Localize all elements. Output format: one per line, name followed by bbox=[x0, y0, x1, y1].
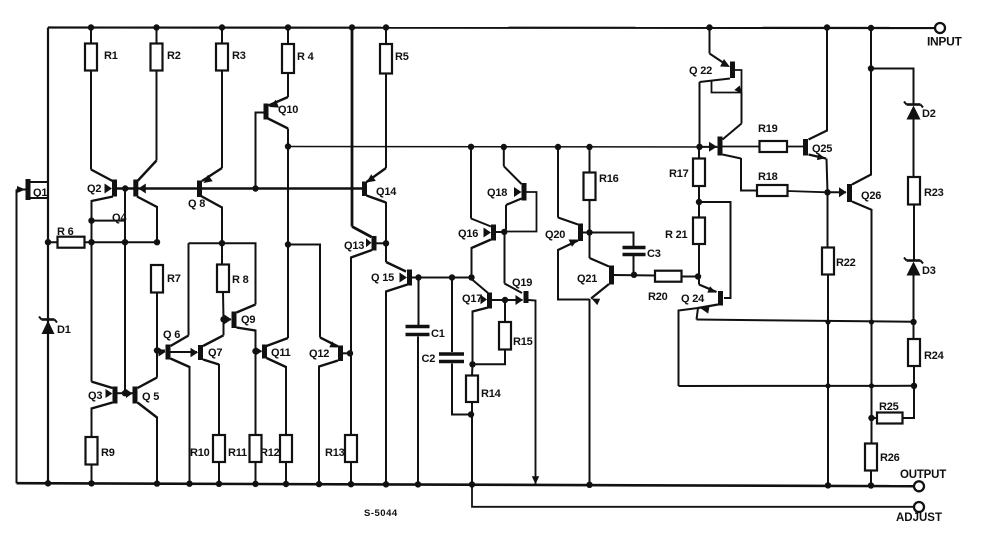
svg-text:R25: R25 bbox=[879, 401, 899, 413]
arrow Q15 emitter bbox=[400, 273, 408, 283]
wire Q23 emitter link bbox=[700, 146, 718, 148]
arrow Q24 base bbox=[707, 286, 716, 292]
label R7 bbox=[167, 273, 181, 285]
wire R24 top lead bbox=[913, 322, 915, 339]
node bottom rail junction bbox=[868, 482, 874, 488]
wire current limit line y320 bbox=[697, 320, 914, 322]
svg-text:R24: R24 bbox=[924, 350, 945, 362]
resistor R13 bbox=[345, 435, 357, 462]
wire Q2 emitter to R6 line bbox=[91, 221, 93, 243]
resistor R21 bbox=[693, 218, 705, 245]
transistor Q13 bbox=[372, 236, 377, 251]
wire Q2 emitter elbow bbox=[92, 221, 126, 243]
wire Q26 base bbox=[828, 191, 847, 193]
label Q11 bbox=[271, 347, 291, 359]
wire R16 bottom lead bbox=[589, 200, 591, 233]
label R15 bbox=[513, 336, 533, 348]
wire Q22 emitter feed bbox=[710, 28, 727, 65]
wire Q18 emitter bbox=[506, 199, 522, 230]
wire R22 bottom lead bbox=[827, 275, 829, 486]
label R5 bbox=[395, 51, 409, 63]
node Q2 emitter junction bbox=[88, 217, 94, 223]
wire Q13 right link bbox=[377, 242, 387, 244]
label Q8 bbox=[188, 198, 205, 210]
wire C2 bottom lead bbox=[452, 364, 471, 415]
transistor Q9 bbox=[232, 312, 237, 329]
arrow Q16 emitter bbox=[484, 228, 492, 238]
wire Q25 collector bbox=[809, 28, 828, 140]
label R2 bbox=[167, 50, 181, 62]
wire C2 top lead bbox=[451, 278, 453, 353]
node R6 left bbox=[45, 239, 51, 245]
wire Q6 Q7 link bbox=[171, 351, 198, 353]
wire bases drop bbox=[124, 242, 126, 393]
wire R14 top lead bbox=[471, 364, 474, 375]
wire R12 bottom lead bbox=[285, 462, 287, 484]
label S-5044 bbox=[364, 508, 398, 519]
svg-text:Q14: Q14 bbox=[376, 186, 397, 198]
wire Q11 emitter bbox=[267, 358, 287, 435]
wire R22 top lead bbox=[827, 192, 829, 247]
resistor R22 bbox=[822, 248, 834, 275]
node Q26 base node bbox=[824, 189, 830, 195]
resistor R15 bbox=[499, 322, 511, 350]
node Q26em y320 junction bbox=[869, 319, 874, 324]
resistor R18 bbox=[757, 185, 788, 196]
arrow Q19 emitter bbox=[516, 295, 524, 305]
terminal INPUT bbox=[935, 23, 945, 33]
wire Q12 emitter bbox=[319, 361, 338, 484]
node R14 top junction bbox=[469, 361, 475, 367]
label R4 bbox=[297, 51, 315, 63]
node bottom rail junction bbox=[415, 481, 421, 487]
wire R19 right lead bbox=[787, 146, 803, 148]
label Q9 bbox=[241, 314, 255, 326]
arrow Q2 emitter bbox=[105, 184, 113, 194]
svg-text:Q 6: Q 6 bbox=[163, 329, 180, 341]
wire Q14 base down bbox=[367, 196, 387, 244]
label R10 bbox=[190, 447, 210, 459]
label R14 bbox=[481, 388, 502, 400]
label R13 bbox=[325, 447, 345, 459]
wire Q8 emitter bbox=[201, 196, 222, 243]
label OUTPUT bbox=[900, 469, 946, 481]
node top rail junction bbox=[285, 24, 291, 30]
label Q24 bbox=[681, 293, 705, 305]
node top rail junction bbox=[383, 24, 389, 30]
transistor Q21 bbox=[609, 266, 614, 285]
label Q6 bbox=[163, 329, 180, 341]
wire Q24 emitter bbox=[698, 305, 718, 309]
wire R24 bottom lead bbox=[913, 366, 915, 386]
wire Q18 collector bbox=[504, 147, 522, 184]
label Q12 bbox=[309, 348, 329, 360]
wire C1 bottom lead bbox=[417, 337, 419, 485]
arrow Q22 collector bbox=[734, 86, 742, 94]
svg-text:Q21: Q21 bbox=[577, 273, 597, 285]
label Q21 bbox=[577, 273, 597, 285]
wire R14 bottom lead bbox=[471, 402, 473, 485]
svg-text:Q3: Q3 bbox=[88, 390, 102, 402]
svg-text:Q9: Q9 bbox=[241, 314, 255, 326]
node top rail junction bbox=[88, 24, 94, 30]
svg-text:R26: R26 bbox=[880, 452, 900, 464]
wire Q12 collector link bbox=[343, 352, 351, 354]
arrow Q21 emitter bbox=[592, 299, 601, 306]
wire R21 bottom lead bbox=[699, 244, 717, 292]
label R18 bbox=[758, 171, 778, 183]
wire Q6 base bbox=[157, 350, 165, 352]
wire Q26 collector bbox=[852, 28, 871, 185]
wire R11 bottom lead bbox=[255, 462, 257, 484]
transistor Q18 bbox=[522, 183, 527, 201]
svg-text:Q19: Q19 bbox=[512, 277, 532, 289]
wire Q25 emitter drop bbox=[827, 159, 828, 193]
resistor R23 bbox=[908, 177, 920, 205]
wire R20 right lead bbox=[682, 276, 700, 278]
svg-text:INPUT: INPUT bbox=[927, 35, 962, 49]
node top rail junction bbox=[349, 24, 355, 30]
svg-text:R13: R13 bbox=[325, 447, 345, 459]
svg-text:R14: R14 bbox=[481, 388, 502, 400]
resistor R12 bbox=[280, 435, 292, 462]
node D3 R24 junction bbox=[910, 319, 916, 325]
resistor R2 bbox=[151, 44, 163, 71]
wire R15 top lead bbox=[504, 300, 506, 322]
svg-text:D2: D2 bbox=[922, 108, 936, 120]
transistor Q17 bbox=[487, 293, 492, 309]
wire R1 bottom to Q2 bbox=[91, 71, 114, 182]
arrow Q14 emitter bbox=[367, 174, 376, 182]
wire R1 top bbox=[90, 28, 92, 44]
wire R13 bottom lead bbox=[350, 462, 352, 484]
label R9 bbox=[101, 447, 115, 459]
wire R17 Q24 bracket bbox=[699, 202, 731, 298]
node R25 R26 junction bbox=[868, 415, 874, 421]
label R22 bbox=[836, 257, 856, 269]
node Q2 Q4 bases bbox=[122, 185, 128, 191]
arrow Q10 emitter bbox=[270, 100, 280, 108]
wire Q10 collector bbox=[268, 119, 288, 147]
svg-text:R23: R23 bbox=[924, 187, 944, 199]
node y147 R17 junction bbox=[696, 144, 702, 150]
transistor Q24 bbox=[718, 291, 723, 306]
node bottom rail junction bbox=[348, 481, 354, 487]
wire Q15 emitter bbox=[386, 285, 408, 485]
wire Q9 emitter bbox=[237, 328, 256, 436]
label R1 bbox=[104, 50, 118, 62]
label Q20 bbox=[545, 229, 565, 241]
svg-text:R5: R5 bbox=[395, 51, 409, 63]
wire Q4 emitter down bbox=[137, 197, 157, 243]
wire R23 bottom lead bbox=[913, 205, 915, 261]
wire Q3 Q5 link bbox=[118, 392, 133, 394]
svg-text:Q 22: Q 22 bbox=[689, 65, 712, 77]
arrow Q26 base bbox=[839, 187, 847, 197]
transistor Q12 bbox=[338, 346, 343, 362]
node bottom rail junction bbox=[45, 480, 51, 486]
svg-text:Q 24: Q 24 bbox=[681, 293, 705, 305]
svg-text:Q17: Q17 bbox=[462, 293, 482, 305]
wire Q20 collector bbox=[558, 147, 578, 225]
label R3 bbox=[232, 50, 246, 62]
wire Q10 base bbox=[256, 113, 264, 189]
wire C3 bottom lead bbox=[633, 256, 635, 275]
svg-text:R12: R12 bbox=[260, 447, 280, 459]
wire Q17 collector bbox=[472, 279, 489, 293]
wire Q13 collector bbox=[351, 250, 372, 435]
wire Q1 gate lead bbox=[17, 190, 26, 484]
svg-text:R19: R19 bbox=[758, 123, 778, 135]
diode D3 bbox=[904, 258, 923, 276]
transistor Q3 bbox=[113, 387, 118, 404]
transistor Q26 bbox=[847, 184, 852, 202]
node y147 R16 junction bbox=[586, 144, 592, 150]
wire Q10 collector down to Q11 bbox=[267, 147, 289, 347]
node Q10 collector junction bbox=[285, 143, 291, 149]
wire bottom rail to OUTPUT bbox=[17, 483, 914, 486]
svg-text:Q12: Q12 bbox=[309, 348, 329, 360]
wire Q20 base link bbox=[583, 232, 589, 234]
wire D2 bottom lead bbox=[913, 120, 915, 178]
wire Q22 collector loop bbox=[712, 70, 742, 93]
node y147 Q18 junction bbox=[501, 144, 507, 150]
label R8 bbox=[232, 274, 249, 286]
svg-text:Q20: Q20 bbox=[545, 229, 565, 241]
node C3 bottom junction bbox=[631, 272, 637, 278]
svg-text:R 8: R 8 bbox=[232, 274, 249, 286]
wire Q22 base diag bbox=[700, 79, 731, 83]
label Q26 bbox=[861, 190, 881, 202]
svg-text:D3: D3 bbox=[922, 265, 936, 277]
svg-text:R22: R22 bbox=[836, 257, 856, 269]
label ADJUST bbox=[896, 512, 942, 524]
svg-text:S-5044: S-5044 bbox=[364, 508, 398, 519]
svg-text:OUTPUT: OUTPUT bbox=[900, 469, 946, 481]
label Q10 bbox=[278, 104, 298, 116]
node R22 y386 junction bbox=[825, 383, 830, 388]
wire Q23 to R19 bbox=[723, 146, 760, 148]
arrow Q3 emitter bbox=[106, 389, 113, 398]
arrow Q24 emitter bbox=[701, 306, 710, 314]
resistor R7 bbox=[151, 265, 163, 293]
svg-text:R11: R11 bbox=[228, 447, 247, 459]
svg-text:Q10: Q10 bbox=[278, 104, 298, 116]
wire R25 left lead bbox=[871, 417, 877, 419]
arrow Q9 base bbox=[225, 315, 232, 325]
node D2 branch junction bbox=[868, 65, 874, 71]
node R15 top junction bbox=[502, 297, 508, 303]
wire Q16 emitter bbox=[472, 240, 492, 278]
arrow Q7 base bbox=[191, 348, 199, 357]
node Q15 Q16 Q17 node bbox=[468, 274, 474, 280]
label R21 bbox=[665, 229, 688, 241]
wire Q6 emitter bbox=[171, 359, 190, 484]
transistor Q16 bbox=[491, 225, 496, 241]
wire Q1 bottom lead bbox=[30, 197, 48, 199]
label Q22 bbox=[689, 65, 712, 77]
wire R17 bottom lead bbox=[698, 186, 700, 202]
node bottom rail junction bbox=[252, 481, 258, 487]
resistor R8 bbox=[217, 265, 229, 293]
node bottom rail junction bbox=[283, 481, 289, 487]
wire bracket right to Q9 bbox=[237, 243, 256, 312]
svg-text:R 4: R 4 bbox=[297, 51, 315, 63]
transistor Q22 bbox=[730, 62, 735, 79]
svg-text:R 21: R 21 bbox=[665, 229, 688, 241]
wire R4 bottom to Q10 bbox=[269, 73, 289, 106]
node bottom rail junction bbox=[586, 482, 592, 488]
wire Q17 emitter bbox=[473, 308, 489, 365]
wire R8 top bbox=[221, 243, 223, 264]
resistor R16 bbox=[584, 173, 596, 201]
node top rail junction bbox=[219, 24, 225, 30]
svg-text:Q 8: Q 8 bbox=[188, 198, 205, 210]
node Q13 collector node bbox=[383, 240, 389, 246]
arrow Q1 emitter bbox=[17, 186, 26, 193]
transistor Q8 bbox=[197, 181, 202, 198]
wire ADJUST branch bbox=[472, 485, 914, 507]
svg-text:Q7: Q7 bbox=[208, 347, 222, 359]
node bottom rail junction bbox=[154, 480, 160, 486]
wire R2 bottom to Q4 bbox=[138, 71, 157, 182]
node bottom rail junction bbox=[825, 482, 831, 488]
wire R26 bottom lead bbox=[870, 471, 872, 486]
node R22 y320 junction bbox=[825, 319, 830, 324]
wire Q24 emitter down path bbox=[697, 308, 699, 320]
label R19 bbox=[758, 123, 778, 135]
resistor R19 bbox=[760, 141, 788, 152]
resistor R6 bbox=[58, 237, 85, 248]
node Q3 Q5 bases bbox=[122, 390, 128, 396]
wire D2 top lead bbox=[871, 69, 914, 105]
wire R4 top bbox=[287, 28, 289, 45]
wire Q16 collector bbox=[471, 147, 491, 227]
svg-text:Q16: Q16 bbox=[458, 228, 478, 240]
label R23 bbox=[924, 187, 944, 199]
wire R24 to R25 bbox=[903, 386, 915, 418]
svg-text:R9: R9 bbox=[101, 447, 115, 459]
label R20 bbox=[648, 291, 668, 303]
node R6 right bbox=[88, 239, 94, 245]
resistor R4 bbox=[282, 44, 294, 73]
arrow Q8 emitter bbox=[204, 175, 213, 183]
wire Q19 base feed bbox=[505, 234, 523, 294]
wire Q25 emitter bbox=[809, 155, 827, 159]
wire Q3 collector bbox=[92, 242, 113, 388]
node input rail D2 junction bbox=[868, 25, 874, 31]
node Q10 base junction bbox=[252, 185, 258, 191]
wire R8 bottom bbox=[222, 292, 225, 319]
transistor Q19 bbox=[524, 291, 529, 303]
arrow Q20 emitter bbox=[569, 240, 578, 247]
resistor R14 bbox=[466, 376, 478, 403]
label R12 bbox=[260, 447, 280, 459]
wire R18 right lead bbox=[788, 191, 828, 192]
wire Q13 emitter feed bbox=[352, 28, 372, 238]
wire Q24 emitter left path bbox=[679, 308, 699, 386]
arrow Q25 emitter bbox=[817, 153, 826, 160]
wire Q9 base bbox=[224, 318, 232, 320]
transistor Q23 bbox=[718, 137, 723, 156]
node R14 C2 junction bbox=[468, 411, 474, 417]
wire C3 top lead bbox=[590, 233, 634, 247]
svg-text:R15: R15 bbox=[513, 336, 533, 348]
diode D2 bbox=[904, 102, 923, 120]
svg-text:Q18: Q18 bbox=[487, 187, 507, 199]
svg-text:Q1: Q1 bbox=[33, 187, 47, 199]
transistor Q5 bbox=[133, 387, 138, 404]
transistor Q11 bbox=[262, 345, 267, 359]
wire Q14 node to Q15 bbox=[386, 243, 406, 271]
transistor Q20 bbox=[578, 224, 583, 242]
svg-text:Q13: Q13 bbox=[344, 240, 364, 252]
svg-text:R20: R20 bbox=[648, 291, 668, 303]
label Q25 bbox=[812, 143, 832, 155]
label INPUT bbox=[927, 35, 962, 49]
resistor R24 bbox=[908, 339, 920, 366]
wire R10 bottom lead bbox=[218, 462, 220, 484]
svg-text:Q25: Q25 bbox=[812, 143, 832, 155]
svg-text:Q 15: Q 15 bbox=[371, 272, 394, 284]
wire Q22 collector down to Q23 bbox=[723, 93, 742, 140]
resistor R5 bbox=[380, 44, 392, 74]
node R20 R21 junction bbox=[695, 273, 701, 279]
node bases drop junction bbox=[122, 239, 128, 245]
svg-text:C2: C2 bbox=[422, 353, 436, 365]
node C2 top junction bbox=[449, 274, 455, 280]
transistor Q25 bbox=[803, 139, 808, 156]
node Q12 collector junction bbox=[347, 350, 353, 356]
svg-text:R18: R18 bbox=[758, 171, 778, 183]
wire Q1 top lead bbox=[30, 181, 48, 183]
wire Q2 Q4 bases drop bbox=[124, 189, 126, 221]
wire R17 top lead bbox=[698, 147, 700, 159]
wire R5 bottom to Q14 bbox=[367, 74, 387, 183]
wire R3 top bbox=[221, 28, 223, 44]
label Q15 bbox=[371, 272, 394, 284]
svg-text:Q 5: Q 5 bbox=[142, 391, 159, 403]
label D1 bbox=[57, 324, 71, 336]
label R24 bbox=[924, 350, 945, 362]
capacitor C3 bbox=[623, 248, 646, 255]
wire Q26 emitter bbox=[852, 202, 872, 444]
wire Q5 emitter bbox=[138, 403, 158, 484]
transistor Q14 bbox=[362, 182, 367, 197]
node Q16 Q18 node bbox=[501, 229, 507, 235]
svg-text:R17: R17 bbox=[669, 168, 689, 180]
svg-text:R16: R16 bbox=[599, 173, 619, 185]
wire Q17 Q19 link bbox=[492, 299, 523, 301]
node top rail junction bbox=[706, 24, 712, 30]
node Q9 base junction bbox=[220, 316, 226, 322]
node R17 bottom junction bbox=[696, 199, 702, 205]
arrow Q6 base bbox=[159, 348, 166, 357]
wire R2 top bbox=[156, 28, 158, 44]
label C2 bbox=[422, 353, 436, 365]
label Q2 bbox=[87, 183, 101, 195]
terminal OUTPUT bbox=[914, 481, 924, 491]
resistor R10 bbox=[213, 435, 225, 462]
wire bracket left down to Q6 bbox=[171, 243, 189, 346]
wire Q20 emitter bbox=[558, 241, 590, 300]
label Q19 bbox=[512, 277, 532, 289]
arrow Q18 emitter bbox=[514, 187, 522, 197]
svg-text:R2: R2 bbox=[167, 50, 181, 62]
wire C1 top lead bbox=[418, 278, 420, 326]
transistor Q6 bbox=[166, 345, 171, 360]
svg-text:R 6: R 6 bbox=[57, 226, 74, 238]
